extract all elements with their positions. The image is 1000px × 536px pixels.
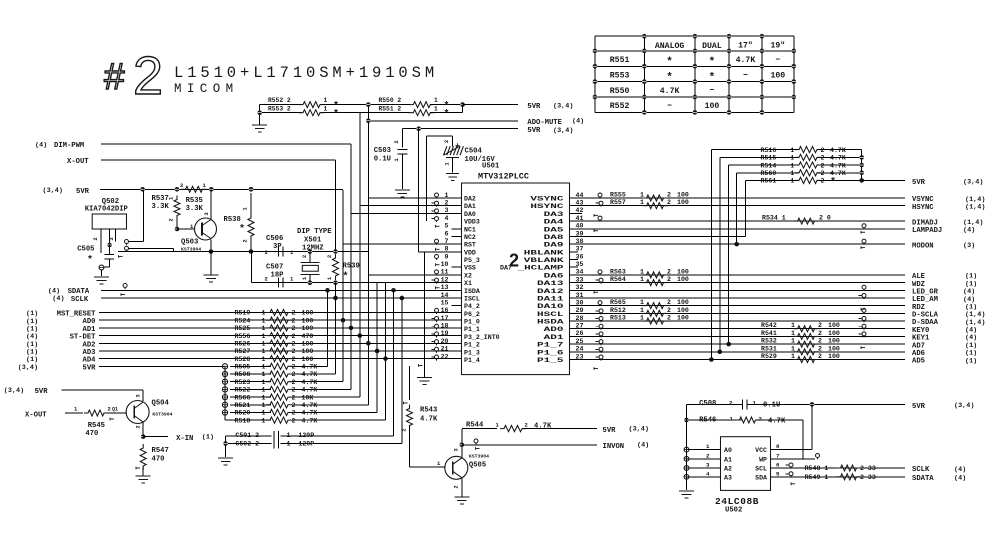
wire riser SDATA C501	[393, 290, 395, 436]
svg-text:(4): (4)	[954, 466, 966, 474]
resistor R565	[643, 303, 668, 309]
svg-text:R549 1: R549 1	[805, 474, 829, 481]
svg-text:A3: A3	[724, 474, 732, 481]
svg-text:2 33: 2 33	[860, 474, 876, 481]
node AD7	[570, 343, 906, 345]
svg-text:R513: R513	[610, 315, 626, 322]
ground top-left	[259, 105, 261, 125]
svg-text:100: 100	[677, 192, 689, 199]
svg-text:(4): (4)	[637, 442, 649, 450]
svg-text:2: 2	[821, 178, 825, 185]
wire Q504 emitter	[142, 422, 144, 437]
svg-text:4.7K: 4.7K	[830, 155, 846, 162]
svg-text:0.1U: 0.1U	[763, 401, 780, 409]
resistor R515	[795, 154, 821, 160]
svg-text:DA6: DA6	[544, 272, 564, 279]
node RDZ	[570, 305, 906, 307]
svg-text:1: 1	[262, 333, 266, 340]
svg-text:2: 2	[292, 371, 296, 378]
svg-text:DA11: DA11	[537, 295, 564, 302]
svg-text:2: 2	[301, 255, 308, 258]
svg-text:(3,4): (3,4)	[963, 179, 983, 187]
svg-text:R550: R550	[610, 87, 630, 96]
U501 pin 21 stub	[435, 347, 439, 351]
svg-text:R516: R516	[761, 147, 777, 154]
resistor R522	[266, 386, 292, 392]
U501 pin 1 stub	[435, 193, 439, 197]
svg-text:9: 9	[445, 253, 449, 260]
svg-text:2: 2	[453, 485, 460, 488]
svg-text:100: 100	[302, 317, 314, 324]
svg-text:#: #	[104, 56, 125, 97]
U501 pin 2 stub	[435, 201, 439, 205]
svg-text:P1_0: P1_0	[464, 319, 480, 326]
svg-text:VSYNC: VSYNC	[530, 196, 563, 203]
resistor R546	[687, 419, 742, 421]
wire riser X-OUT R539 SCLK R508	[335, 160, 337, 251]
svg-text:U502: U502	[725, 507, 742, 515]
svg-text:*: *	[444, 109, 450, 121]
svg-text:3.3K: 3.3K	[152, 203, 170, 211]
svg-text:(3,4): (3,4)	[629, 426, 649, 434]
svg-text:DA12: DA12	[537, 288, 564, 295]
resistor R566	[266, 394, 292, 400]
svg-text:R551: R551	[610, 56, 630, 65]
svg-text:R534 1: R534 1	[762, 215, 786, 222]
svg-text:VDD: VDD	[464, 249, 476, 256]
node D-SCLA	[570, 312, 906, 314]
svg-text:P1_1: P1_1	[464, 326, 480, 333]
wire riser 5VR-RST R524 R523	[342, 190, 344, 382]
svg-text:4.7K: 4.7K	[736, 56, 756, 65]
svg-text:3: 3	[108, 237, 115, 241]
svg-text:1: 1	[434, 97, 438, 104]
svg-text:NC2: NC2	[464, 234, 476, 241]
svg-text:R556: R556	[235, 333, 251, 340]
U501 pin 4 stub	[435, 217, 439, 221]
U501 pin 11 stub	[435, 270, 439, 274]
U501 pin36 stub	[570, 259, 579, 261]
svg-text:4.7K: 4.7K	[302, 387, 318, 394]
svg-text:5: 5	[776, 470, 780, 477]
svg-text:100: 100	[705, 102, 720, 111]
svg-text:A1: A1	[724, 456, 732, 463]
svg-text:DUAL: DUAL	[702, 42, 722, 51]
resistor R538	[248, 214, 254, 240]
svg-text:5VR: 5VR	[527, 127, 541, 135]
svg-text:1: 1	[791, 178, 795, 185]
node HSYNC	[570, 205, 906, 207]
svg-text:0.1U: 0.1U	[374, 156, 391, 164]
svg-text:R514: R514	[761, 162, 777, 169]
U501 pin 9 stub	[435, 255, 439, 259]
svg-text:2: 2	[292, 348, 296, 355]
svg-text:1: 1	[791, 170, 795, 177]
svg-text:C506: C506	[266, 235, 283, 243]
svg-text:3.3K: 3.3K	[186, 205, 204, 213]
svg-text:470: 470	[302, 333, 314, 340]
svg-text:KIA7042DIP: KIA7042DIP	[85, 206, 129, 214]
wire stack outputs to 5VR	[817, 149, 862, 151]
wire 5VR row2	[260, 112, 302, 114]
U501 pin 16 stub	[435, 308, 439, 312]
svg-text:(3,4): (3,4)	[18, 364, 38, 372]
resistor R544	[462, 428, 497, 430]
wire join R550 R551 to 5VR	[430, 104, 463, 106]
svg-text:2: 2	[667, 192, 671, 199]
svg-text:*: *	[87, 255, 93, 267]
svg-text:4.7K: 4.7K	[302, 417, 318, 424]
svg-text:R566: R566	[235, 394, 251, 401]
svg-text:1: 1	[791, 338, 795, 345]
wire riser R516 AD5	[710, 150, 712, 360]
svg-text:1: 1	[640, 276, 644, 283]
svg-text:2: 2	[292, 356, 296, 363]
svg-text:R527: R527	[235, 348, 251, 355]
svg-text:1: 1	[262, 364, 266, 371]
svg-text:VBLANK: VBLANK	[524, 257, 564, 264]
svg-text:1: 1	[290, 276, 294, 283]
wire riser R514 AD7	[728, 165, 730, 344]
svg-text:1: 1	[301, 276, 308, 280]
svg-text:2: 2	[818, 345, 822, 352]
resistor R505	[266, 363, 292, 369]
svg-text:2: 2	[292, 325, 296, 332]
svg-text:6: 6	[445, 230, 449, 237]
svg-text:4.7K: 4.7K	[302, 402, 318, 409]
svg-text:20: 20	[441, 338, 449, 345]
svg-text:AD1: AD1	[544, 334, 564, 341]
svg-text:R564: R564	[610, 276, 626, 283]
svg-text:LAMPADJ: LAMPADJ	[912, 227, 942, 235]
resistor R527	[266, 348, 292, 354]
resistor R519	[266, 309, 292, 315]
ground under C504	[446, 173, 459, 175]
svg-text:1: 1	[640, 299, 644, 306]
node X-IN	[143, 436, 168, 438]
U501 pin37 stub	[570, 251, 579, 253]
ground under Q505	[454, 496, 469, 498]
svg-text:2: 2	[818, 330, 822, 337]
svg-text:2: 2	[180, 182, 183, 189]
ground under Q503	[210, 252, 212, 275]
svg-text:2: 2	[292, 402, 296, 409]
resistor R545	[84, 410, 108, 416]
svg-text:1: 1	[791, 330, 795, 337]
U501 pin 14 stub	[452, 297, 462, 299]
svg-text:*: *	[666, 72, 673, 84]
svg-text:2: 2	[509, 251, 519, 271]
svg-text:100: 100	[302, 356, 314, 363]
svg-text:KST3904: KST3904	[469, 454, 489, 460]
wire Q505 emitter	[461, 479, 463, 497]
svg-text:R551 2: R551 2	[379, 106, 402, 113]
svg-text:(3,4): (3,4)	[43, 187, 63, 195]
svg-text:2: 2	[292, 387, 296, 394]
svg-text:*: *	[333, 109, 339, 121]
svg-text:4.7K: 4.7K	[302, 410, 318, 417]
svg-text:1: 1	[434, 106, 438, 113]
svg-text:R508: R508	[235, 371, 251, 378]
svg-text:INVON: INVON	[603, 443, 625, 451]
U501 pin42 stub	[570, 212, 583, 214]
svg-text:Q505: Q505	[469, 462, 486, 470]
svg-text:WP: WP	[759, 456, 767, 463]
svg-text:470: 470	[152, 456, 165, 464]
wire riser R527 R520	[376, 283, 378, 413]
wire riser SCLK C502	[401, 298, 403, 444]
svg-text:(4): (4)	[52, 295, 64, 303]
svg-text:100: 100	[828, 322, 840, 329]
svg-text:R523: R523	[235, 379, 251, 386]
svg-text:(1): (1)	[202, 433, 214, 441]
svg-text:1: 1	[262, 371, 266, 378]
bank 5VR feed column	[224, 366, 226, 420]
svg-text:2: 2	[292, 417, 296, 424]
IC U502 24LC08B	[721, 437, 771, 491]
svg-text:18P: 18P	[271, 272, 285, 280]
svg-text:R548 1: R548 1	[805, 465, 829, 472]
svg-text:2: 2	[667, 199, 671, 206]
svg-text:R560: R560	[761, 170, 777, 177]
U501 pin 12 stub	[435, 278, 439, 282]
svg-text:1: 1	[437, 460, 441, 467]
resistor R563	[643, 272, 668, 278]
node ALE	[570, 274, 906, 276]
svg-text:5VR: 5VR	[912, 179, 926, 187]
U501 pin 19 stub	[435, 332, 439, 336]
node SDATA right	[771, 476, 906, 478]
svg-text:P3_2_INT0: P3_2_INT0	[464, 334, 500, 341]
svg-text:R520: R520	[235, 410, 251, 417]
svg-text:5VR: 5VR	[76, 188, 90, 196]
wire DA8 row	[570, 235, 746, 237]
svg-text:R553 2: R553 2	[268, 106, 291, 113]
svg-text:5VR: 5VR	[527, 103, 541, 111]
svg-text:1: 1	[290, 249, 294, 256]
svg-text:1 120P: 1 120P	[287, 432, 315, 439]
wire crystal top row	[118, 251, 368, 253]
svg-text:2: 2	[525, 422, 528, 429]
wire C50x ground	[225, 436, 227, 457]
svg-text:1: 1	[326, 276, 333, 280]
wire crystal bottom row	[252, 282, 462, 284]
svg-text:(3,4): (3,4)	[553, 127, 573, 135]
svg-text:R541: R541	[761, 330, 777, 337]
svg-text:(3,4): (3,4)	[954, 402, 974, 410]
svg-text:100: 100	[677, 199, 689, 206]
resistor R539	[333, 249, 338, 254]
svg-text:1 120P: 1 120P	[287, 441, 315, 448]
resistor R508	[266, 371, 292, 377]
U501 pin 5 stub	[452, 228, 462, 230]
svg-text:100: 100	[302, 310, 314, 317]
svg-text:R505: R505	[235, 364, 251, 371]
svg-text:R550 2: R550 2	[379, 97, 402, 104]
svg-text:2: 2	[821, 162, 825, 169]
resistor R556	[266, 332, 292, 338]
svg-text:2: 2	[667, 299, 671, 306]
svg-text:DA5: DA5	[544, 226, 564, 233]
svg-text:1: 1	[262, 410, 266, 417]
svg-text:1: 1	[706, 443, 710, 450]
svg-text:7: 7	[776, 452, 780, 459]
resistor R543	[409, 366, 411, 400]
svg-text:3P: 3P	[273, 243, 282, 251]
svg-text:C507: C507	[266, 264, 283, 272]
svg-text:R544: R544	[466, 422, 484, 430]
svg-text:SCL: SCL	[755, 466, 767, 473]
svg-text:2: 2	[667, 276, 671, 283]
svg-text:U501: U501	[482, 163, 500, 171]
wire riser DIM-PWM pin3 R525 R522	[350, 144, 352, 390]
wire Q505 collector INVON	[461, 429, 463, 458]
resistor R521	[266, 402, 292, 408]
svg-text:(4): (4)	[572, 118, 584, 126]
svg-text:R518: R518	[235, 417, 251, 424]
ground under R547	[142, 467, 144, 476]
svg-text:4.7K: 4.7K	[830, 147, 846, 154]
svg-text:*: *	[239, 224, 245, 236]
svg-text:17": 17"	[738, 41, 753, 51]
svg-text:DA2: DA2	[464, 196, 476, 203]
svg-text:4.7K: 4.7K	[302, 379, 318, 386]
resistor R529	[794, 356, 819, 362]
svg-text:ANALOG: ANALOG	[655, 42, 685, 51]
svg-text:100: 100	[677, 307, 689, 314]
svg-text:1: 1	[791, 345, 795, 352]
svg-text:1: 1	[640, 199, 644, 206]
svg-text:1: 1	[262, 402, 266, 409]
node VSYNC	[570, 197, 906, 199]
U501 pin35 stub	[570, 266, 579, 268]
svg-text:1: 1	[262, 325, 266, 332]
svg-text:(3,4): (3,4)	[553, 103, 573, 111]
resistor R524	[266, 317, 292, 323]
svg-text:MTV312PLCC: MTV312PLCC	[478, 172, 529, 182]
node SCLK right	[771, 467, 906, 469]
table of resistor options	[595, 35, 794, 37]
svg-text:100: 100	[828, 345, 840, 352]
svg-text:100: 100	[302, 348, 314, 355]
svg-text:R557: R557	[610, 199, 626, 206]
svg-text:ADO-MUTE: ADO-MUTE	[527, 119, 562, 127]
svg-text:R545: R545	[88, 422, 105, 430]
svg-text:2: 2	[265, 276, 268, 283]
resistor R547	[140, 444, 146, 470]
svg-text:100: 100	[677, 299, 689, 306]
svg-text:R532: R532	[761, 338, 777, 345]
ground under C503	[395, 189, 410, 191]
svg-text:2: 2	[706, 452, 710, 459]
capacitor C508	[687, 403, 743, 405]
resistor R542	[794, 326, 819, 332]
ground under eeprom	[679, 490, 694, 492]
svg-text:R519: R519	[235, 310, 251, 317]
svg-text:1: 1	[262, 417, 266, 424]
svg-text:(4): (4)	[963, 227, 975, 235]
svg-text:17: 17	[441, 315, 449, 322]
resistor R528	[266, 356, 292, 362]
svg-text:1: 1	[791, 162, 795, 169]
svg-text:1: 1	[791, 147, 795, 154]
svg-text:1: 1	[262, 310, 266, 317]
svg-text:Q1: Q1	[112, 407, 118, 413]
svg-text:1: 1	[324, 106, 328, 113]
resistor R537	[174, 196, 180, 220]
svg-text:2: 2	[667, 315, 671, 322]
svg-text:10: 10	[441, 261, 449, 268]
svg-text:3: 3	[135, 394, 142, 398]
resistor R513	[643, 318, 668, 324]
svg-text:MODON: MODON	[912, 242, 934, 250]
resistor R552	[299, 102, 324, 108]
svg-text:X501: X501	[304, 237, 322, 245]
svg-text:A2: A2	[724, 466, 732, 473]
svg-text:2: 2	[292, 333, 296, 340]
svg-text:P1_6: P1_6	[537, 349, 564, 356]
svg-text:Q504: Q504	[152, 400, 170, 408]
svg-text:1: 1	[262, 356, 266, 363]
svg-text:R563: R563	[610, 268, 626, 275]
svg-text:–: –	[667, 101, 672, 111]
svg-text:R546: R546	[699, 417, 716, 425]
svg-text:2: 2	[821, 147, 825, 154]
U501 pin 15 stub	[452, 305, 462, 307]
svg-text:2: 2	[326, 255, 333, 258]
svg-text:1: 1	[262, 379, 266, 386]
svg-text:*: *	[830, 177, 836, 189]
svg-text:R565: R565	[610, 299, 626, 306]
node WDZ	[570, 282, 906, 284]
svg-text:(1,4): (1,4)	[965, 203, 985, 211]
svg-text:100: 100	[828, 338, 840, 345]
transistor Q503	[195, 218, 217, 240]
wire riser row1 ADO pin1 R526 R521	[367, 105, 369, 405]
svg-text:R555: R555	[610, 192, 626, 199]
wire Q502 to 5VR riser	[125, 240, 129, 244]
svg-text:18: 18	[441, 323, 449, 330]
svg-text:1: 1	[730, 416, 734, 423]
node KEY1	[570, 335, 906, 337]
resistor R560	[795, 170, 821, 176]
svg-text:2 33: 2 33	[860, 465, 876, 472]
wire riser SDATA to R505	[327, 290, 329, 366]
svg-text:R522: R522	[235, 387, 251, 394]
svg-text:2: 2	[242, 239, 249, 242]
node AD6	[570, 351, 906, 353]
U501 pin 20 stub	[435, 340, 439, 344]
svg-text:100: 100	[302, 340, 314, 347]
svg-text:8: 8	[445, 246, 449, 253]
svg-text:AD0: AD0	[544, 326, 564, 333]
svg-text:P1_3: P1_3	[464, 349, 480, 356]
svg-text:1: 1	[324, 97, 328, 104]
svg-text:R547: R547	[152, 447, 169, 455]
svg-text:1: 1	[262, 317, 266, 324]
svg-text:2: 2	[292, 410, 296, 417]
node MODON	[570, 243, 906, 245]
svg-text:5VR: 5VR	[603, 427, 617, 435]
svg-text:2: 2	[818, 338, 822, 345]
resistor R551	[409, 110, 434, 116]
svg-text:KST3904: KST3904	[152, 412, 172, 418]
svg-text:C504: C504	[465, 148, 483, 156]
wire riser R560 MODON	[736, 173, 738, 244]
svg-text:2: 2	[292, 364, 296, 371]
svg-text:DIM-PWM: DIM-PWM	[54, 142, 84, 150]
svg-text:DA3: DA3	[544, 211, 564, 218]
